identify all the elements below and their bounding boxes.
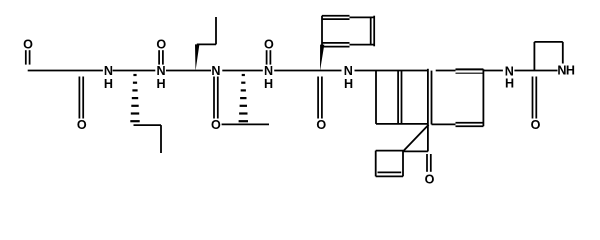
ring right-middle: top double bond <box>456 69 484 73</box>
cyclobutene ring <box>376 151 403 177</box>
ring left-middle: central double bond <box>398 71 401 124</box>
wire side chain 3 (O4 to methyl) <box>222 123 269 125</box>
svg-text:N: N <box>344 64 353 78</box>
svg-text:H: H <box>104 77 113 91</box>
svg-text:O: O <box>531 118 541 132</box>
svg-text:H: H <box>156 77 165 91</box>
double bond C1=O1 <box>26 50 30 64</box>
svg-text:N: N <box>104 64 113 78</box>
ring right-middle: bottom double bond <box>456 123 484 127</box>
wire chain segment C1-C2-N1 <box>28 70 103 72</box>
wire chain segment ring to N6 <box>483 70 503 72</box>
svg-text:O: O <box>425 172 435 186</box>
svg-text:O: O <box>211 118 221 132</box>
svg-text:N: N <box>211 64 220 78</box>
svg-text:O: O <box>156 38 166 52</box>
wire side chain 2 vertical <box>215 17 217 44</box>
wire chain segment through right ring <box>436 70 456 72</box>
double bond C2=O2 <box>79 77 83 119</box>
ring right-middle: left edge <box>431 71 433 125</box>
azetidinone ring <box>534 42 562 71</box>
double bond C8=O8 <box>533 77 537 119</box>
double bond C6=O7 <box>318 77 322 119</box>
ring right-middle: bottom edge single part <box>432 123 456 125</box>
double bond C7=O9 <box>427 154 431 172</box>
wire chain segment N5 to rings <box>355 70 428 72</box>
wire side chain 1 horizontal <box>134 124 162 126</box>
svg-text:H: H <box>344 77 353 91</box>
double bond N4=O6 <box>267 50 271 64</box>
ring right-middle: right edge <box>482 69 484 126</box>
double bond N3=O4 <box>214 77 218 119</box>
svg-text:O: O <box>23 38 33 52</box>
wire diagonal bond (cyclobutene to ring junction) <box>403 125 429 152</box>
svg-text:H: H <box>505 76 514 90</box>
svg-text:H: H <box>264 77 273 91</box>
svg-text:H: H <box>566 64 575 78</box>
wire chain segment N1-C3 <box>113 70 156 72</box>
svg-text:O: O <box>264 38 274 52</box>
wire horizontal bond (cyclobutene to carbonyl C7) <box>403 150 428 152</box>
wire side chain 2 horizontal <box>197 43 216 45</box>
wire side chain 1 vertical <box>160 125 162 153</box>
svg-text:N: N <box>264 64 273 78</box>
wire chain segment N6 to azetidinone <box>514 70 557 72</box>
wire vertical junction (ring right edge down to carbonyl C7) <box>427 69 429 152</box>
wire chain segment N3-C5 <box>222 70 262 72</box>
wire chain segment N2-C4 <box>166 70 211 72</box>
svg-text:O: O <box>77 118 87 132</box>
double bond N2=O3 <box>159 50 163 64</box>
benzene ring top (phenyl) <box>322 16 374 47</box>
bold wedge bond C4 (up) <box>195 44 199 71</box>
svg-text:O: O <box>316 118 326 132</box>
hashed wedge bond C3 (down) <box>130 75 139 121</box>
svg-text:N: N <box>156 64 165 78</box>
ring left-middle: left edge <box>375 71 377 124</box>
hashed wedge bond C5 (down) <box>239 75 248 121</box>
ring left-middle: bottom edge <box>376 123 428 125</box>
wire chain segment N4-C6 <box>274 70 341 72</box>
bold wedge bond C6 to phenyl <box>320 45 324 71</box>
